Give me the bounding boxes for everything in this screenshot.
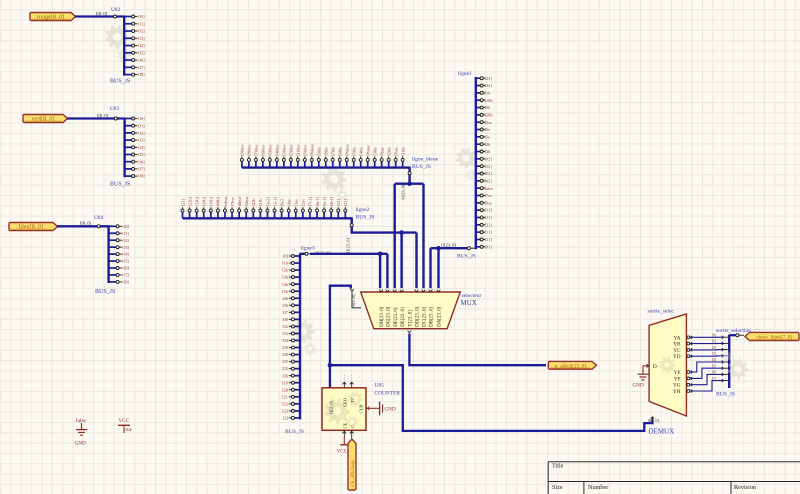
wire split to MUX DF and DD <box>395 182 424 184</box>
pin I42b <box>252 212 254 218</box>
pin O6] <box>125 161 132 163</box>
svg-text:I11]: I11] <box>485 208 493 213</box>
wire vert bus <box>67 117 124 119</box>
pin I4e1] <box>330 212 332 218</box>
svg-text:Pbue: Pbue <box>380 147 385 156</box>
svg-text:Pbnue: Pbnue <box>366 145 371 156</box>
svg-text:I02]: I02] <box>485 156 493 161</box>
svg-text:I11]: I11] <box>485 230 493 235</box>
svg-text:BUS_JS: BUS_JS <box>110 182 130 188</box>
svg-text:DG[23..0]: DG[23..0] <box>387 306 392 326</box>
pin I01] <box>476 246 480 248</box>
svg-text:I5]: I5] <box>712 363 717 368</box>
svg-text:3I3: 3I3 <box>282 331 289 336</box>
svg-text:I42b: I42b <box>251 198 256 207</box>
bus joiner ligne_bleue <box>242 166 410 168</box>
svg-text:Title: Title <box>552 463 564 470</box>
wire to MUX pin DG <box>386 254 388 288</box>
svg-text:Pbue: Pbue <box>393 147 398 156</box>
svg-text:sortie_selec: sortie_selec <box>648 309 675 315</box>
svg-text:CE: CE <box>343 422 348 428</box>
wire ligne_bleue O[23..0] output <box>408 167 410 172</box>
svg-text:I02]: I02] <box>485 171 493 176</box>
svg-text:I1b: I1b <box>282 261 289 266</box>
svg-text:DEMUX: DEMUX <box>649 428 675 436</box>
svg-text:Y[23..0]: Y[23..0] <box>409 310 414 327</box>
svg-text:O5]: O5] <box>122 259 129 264</box>
svg-text:VCC: VCC <box>119 418 130 424</box>
svg-text:ligne3: ligne3 <box>301 245 315 251</box>
pin O3] <box>124 37 132 39</box>
pin O8] <box>124 74 132 76</box>
pin I0] <box>294 255 300 257</box>
svg-text:DF[23..0]: DF[23..0] <box>394 307 399 327</box>
watermark gear 4 <box>291 319 315 343</box>
svg-text:2I8: 2I8 <box>282 352 289 357</box>
pin I3ble <box>374 161 376 167</box>
pin O5] <box>109 260 117 262</box>
svg-text:DH[23..0]: DH[23..0] <box>380 306 385 326</box>
pin I3b <box>294 276 300 278</box>
svg-text:ligne2: ligne2 <box>356 207 370 213</box>
pin O2] <box>109 239 117 241</box>
svg-text:O2]: O2] <box>138 131 145 136</box>
svg-text:false: false <box>485 186 493 191</box>
svg-text:I5ble: I5ble <box>352 147 357 156</box>
pin I9se <box>476 202 480 204</box>
bus joiner ligne2 <box>183 217 352 219</box>
wire to MUX pin DD <box>422 184 424 289</box>
svg-text:CLR: CLR <box>359 404 364 414</box>
pin I23 <box>294 410 300 412</box>
svg-text:I22: I22 <box>282 401 288 406</box>
svg-text:I22]: I22] <box>485 83 493 88</box>
watermark gear 1 <box>105 25 130 50</box>
pin O4] <box>125 146 132 148</box>
svg-text:O8]: O8] <box>122 280 129 285</box>
pin I1b <box>294 262 300 264</box>
svg-text:I1ble: I1ble <box>400 147 405 156</box>
pin I1ble <box>402 161 404 167</box>
wire select branch to DEMUX <box>330 365 653 431</box>
svg-text:DD[23..0]: DD[23..0] <box>416 306 421 326</box>
pin CE arrow <box>342 431 346 433</box>
pin O0] <box>109 225 117 227</box>
pin I0blue <box>304 161 306 167</box>
pin 2I2 <box>294 368 300 370</box>
svg-text:I23: I23 <box>282 408 289 413</box>
pin 3I5 <box>294 361 300 363</box>
node rouge input pin <box>114 15 117 18</box>
pin arrow <box>415 290 419 292</box>
svg-text:I5blue: I5blue <box>268 145 273 156</box>
pin arrow <box>429 290 433 292</box>
pin I4blue <box>276 161 278 167</box>
wire YF to joiner pin I5 <box>687 377 690 380</box>
svg-text:O3]: O3] <box>138 36 145 41</box>
svg-text:sortie_selection: sortie_selection <box>716 328 751 334</box>
pin O7] <box>125 168 132 170</box>
svg-text:I2ble: I2ble <box>386 147 391 156</box>
svg-text:O4]: O4] <box>138 43 145 48</box>
svg-text:I20b: I20b <box>485 112 494 117</box>
svg-text:BUS_JS: BUS_JS <box>356 214 375 220</box>
svg-text:YB: YB <box>673 342 681 348</box>
port vert[8..0] <box>23 115 68 123</box>
small gear <box>753 327 761 335</box>
svg-text:O1]: O1] <box>122 231 129 236</box>
svg-text:Revision: Revision <box>734 484 756 491</box>
pin I7ble <box>332 161 334 167</box>
svg-text:I42]: I42] <box>485 178 493 183</box>
gnd symbol at D input <box>647 364 649 367</box>
svg-text:YF: YF <box>674 376 681 382</box>
pin 2I8 <box>294 354 300 356</box>
pin I4b <box>294 283 300 285</box>
svg-text:clk_affichage: clk_affichage <box>351 459 356 487</box>
pin O7] <box>109 274 117 276</box>
svg-text:I1blue: I1blue <box>296 145 301 156</box>
pin I1e1] <box>274 212 276 218</box>
wire ligne2 O[23..0] output <box>351 217 353 223</box>
pin I11] <box>476 231 480 233</box>
svg-text:blue: blue <box>287 199 292 207</box>
junction <box>399 230 404 235</box>
node bleu input pin <box>97 225 100 228</box>
pin I20b <box>476 114 480 116</box>
pin O5] <box>124 52 132 54</box>
pin O1] <box>109 232 117 234</box>
svg-text:DC[23..0]: DC[23..0] <box>423 307 428 327</box>
svg-text:I20b]: I20b] <box>202 196 207 206</box>
svg-text:ligne_bleue: ligne_bleue <box>412 157 439 163</box>
pin I21 <box>294 396 300 398</box>
svg-text:BUS_JS: BUS_JS <box>716 392 735 398</box>
wire YA to joiner pin I0 <box>687 336 690 339</box>
svg-text:YG: YG <box>673 383 681 389</box>
svg-text:I0e2: I0e2 <box>279 199 284 207</box>
pin I3b <box>476 151 480 153</box>
svg-text:I3b: I3b <box>282 275 289 280</box>
svg-text:I6]: I6] <box>712 370 717 375</box>
svg-text:O6]: O6] <box>122 266 129 271</box>
svg-text:I6e: I6e <box>485 127 491 132</box>
pin arrow Y output <box>408 330 412 332</box>
pin I1b <box>476 92 480 94</box>
pin 2Ib <box>294 297 300 299</box>
wire rouge bus <box>75 15 123 17</box>
svg-text:U84: U84 <box>94 215 104 221</box>
svg-text:rue: rue <box>126 428 133 433</box>
svg-text:3I7: 3I7 <box>282 310 289 315</box>
svg-text:3I8: 3I8 <box>282 317 289 322</box>
svg-text:I9ble: I9ble <box>317 147 322 156</box>
pin O1] <box>124 23 132 25</box>
pin I5ble <box>353 161 355 167</box>
pin I6bue <box>238 212 240 218</box>
svg-text:O7]: O7] <box>138 65 145 70</box>
svg-text:O8]: O8] <box>138 72 145 77</box>
svg-text:DE[23..0]: DE[23..0] <box>401 307 406 327</box>
svg-text:BUS_JS: BUS_JS <box>95 289 115 295</box>
svg-text:O[23..0]: O[23..0] <box>346 238 351 253</box>
bus joiner ligne1 <box>475 77 477 249</box>
pin I10b <box>476 99 480 101</box>
svg-text:2I9: 2I9 <box>282 345 289 350</box>
svg-text:BUS_JS: BUS_JS <box>110 79 130 85</box>
pin I4b <box>476 143 480 145</box>
wire YC to joiner pin I2 <box>687 349 690 352</box>
svg-text:I32]: I32] <box>336 199 341 207</box>
wire counter Q to MUX select <box>330 286 351 388</box>
pin Pbluse <box>346 161 348 167</box>
svg-text:I6ble: I6ble <box>338 147 343 156</box>
svg-text:VCC: VCC <box>337 448 348 454</box>
svg-text:U82: U82 <box>111 7 121 13</box>
svg-text:BUS_JS: BUS_JS <box>457 254 476 260</box>
svg-text:BUS_JS: BUS_JS <box>412 164 431 170</box>
pin Pbue <box>395 161 397 167</box>
svg-text:I[8..0]: I[8..0] <box>97 113 109 118</box>
pin C arrow <box>350 431 354 433</box>
svg-text:I23]: I23] <box>485 76 493 81</box>
svg-text:I4e1]: I4e1] <box>329 197 334 207</box>
svg-text:CEO: CEO <box>343 397 348 407</box>
port rouge[8..0] <box>30 13 76 21</box>
wire to MUX pin DE <box>400 233 402 289</box>
wire YB to joiner pin I1 <box>687 342 690 345</box>
svg-text:GND: GND <box>633 383 644 389</box>
pin I20b] <box>203 212 205 218</box>
watermark gear 2 <box>321 166 347 192</box>
port st_affich[23..0] <box>548 361 596 369</box>
svg-text:I6e1]: I6e1] <box>315 197 320 207</box>
svg-text:I8blue: I8blue <box>247 145 252 156</box>
power VCC on CE <box>343 437 345 445</box>
junction <box>378 252 383 257</box>
svg-text:O5]: O5] <box>138 152 145 157</box>
pin I5b <box>294 290 300 292</box>
svg-text:YD: YD <box>673 354 681 360</box>
pin bdsue <box>224 212 226 218</box>
svg-text:O[23..0]: O[23..0] <box>441 242 456 247</box>
svg-text:I21: I21 <box>282 394 288 399</box>
pin I5bue <box>245 212 247 218</box>
pin TC arrow <box>350 382 354 384</box>
svg-text:O4]: O4] <box>122 252 129 257</box>
pin I1blue <box>297 161 299 167</box>
pin I2] <box>294 417 300 419</box>
svg-text:I6blue: I6blue <box>261 145 266 156</box>
pin I23] <box>182 212 184 218</box>
watermark gear demux right <box>728 359 749 380</box>
pin I11] <box>476 209 480 211</box>
svg-text:I7]: I7] <box>712 376 717 381</box>
pin Pbluse <box>311 161 313 167</box>
op mux selecteur (trapezoid) <box>361 292 461 329</box>
pin I5e <box>476 136 480 138</box>
svg-text:O1]: O1] <box>138 21 145 26</box>
svg-text:2Ib: 2Ib <box>282 296 289 301</box>
svg-text:I12]: I12] <box>485 164 493 169</box>
svg-text:S[2..0]: S[2..0] <box>351 294 356 306</box>
svg-text:I1]: I1] <box>712 339 717 344</box>
svg-text:I5e1]: I5e1] <box>322 197 327 207</box>
wire to MUX pin DB <box>437 248 439 288</box>
pin I23] <box>476 77 480 79</box>
wire bleu bus <box>57 225 108 227</box>
pin I5blue <box>269 161 271 167</box>
pin 3I8 <box>294 318 300 320</box>
bus joiner ligne3 <box>299 253 301 419</box>
pin I6ble <box>339 161 341 167</box>
svg-text:3I4: 3I4 <box>282 338 289 343</box>
junction <box>436 246 441 251</box>
svg-text:false: false <box>76 417 86 424</box>
pin O8] <box>125 175 132 177</box>
port clk_affichage (vertical) <box>348 439 356 490</box>
svg-text:I1e1]: I1e1] <box>272 197 277 207</box>
counter U85 body <box>322 388 366 431</box>
pin Pbnue <box>367 161 369 167</box>
port choix_ligne[7..0] <box>745 332 799 340</box>
svg-text:O[23..0]: O[23..0] <box>401 184 406 199</box>
svg-text:O4]: O4] <box>138 145 145 150</box>
pin I31b <box>259 212 261 218</box>
svg-text:MUX: MUX <box>461 299 477 307</box>
pin I7e1] <box>309 212 311 218</box>
svg-text:YC: YC <box>673 348 681 354</box>
svg-text:GND: GND <box>385 406 396 412</box>
junction select branch <box>328 363 333 368</box>
pin I11] <box>476 216 480 218</box>
wire YD to joiner pin I3 <box>687 355 690 358</box>
svg-text:I7e1]: I7e1] <box>308 197 313 207</box>
svg-text:I11]: I11] <box>485 237 493 242</box>
svg-text:O5]: O5] <box>138 50 145 55</box>
svg-text:rouge[8..0]: rouge[8..0] <box>37 14 65 21</box>
pin O8] <box>109 281 117 283</box>
watermark gear 3 <box>456 148 477 169</box>
svg-text:O1]: O1] <box>138 123 145 128</box>
mux select pin S[2..0] <box>352 292 361 308</box>
pin I02] <box>476 172 480 174</box>
pin I8blue <box>248 161 250 167</box>
svg-text:Pbluse: Pbluse <box>345 144 350 156</box>
svg-text:S[2..0]: S[2..0] <box>648 418 660 423</box>
svg-text:C: C <box>350 425 355 428</box>
pin I9b <box>476 107 480 109</box>
svg-text:I19b]: I19b] <box>209 196 214 206</box>
svg-text:I6bue: I6bue <box>237 196 242 206</box>
svg-text:I31]: I31] <box>485 222 493 227</box>
svg-text:I01]: I01] <box>485 244 493 249</box>
svg-text:3I2: 3I2 <box>282 324 288 329</box>
pin I0e2 <box>281 212 283 218</box>
pin O4] <box>109 253 117 255</box>
pin I6blue <box>262 161 264 167</box>
pin I2ue <box>302 212 304 218</box>
svg-text:I3b: I3b <box>485 149 492 154</box>
pin O1] <box>125 125 132 127</box>
svg-text:choix_ligne[7..0]: choix_ligne[7..0] <box>756 335 792 341</box>
svg-text:I2blue: I2blue <box>289 145 294 156</box>
svg-text:O0]: O0] <box>138 14 145 19</box>
pin I02] <box>476 158 480 160</box>
pin I6e <box>476 129 480 131</box>
svg-text:O0]: O0] <box>138 116 145 121</box>
pin blue <box>288 212 290 218</box>
svg-text:I4]: I4] <box>712 357 717 362</box>
pin arrow <box>379 290 383 292</box>
svg-text:3I6: 3I6 <box>282 373 289 378</box>
pin arrow <box>386 290 390 292</box>
svg-text:I4b: I4b <box>485 142 492 147</box>
svg-text:I1b: I1b <box>485 90 492 95</box>
svg-text:I2]: I2] <box>283 416 289 421</box>
junction <box>407 181 412 186</box>
svg-text:I8ble: I8ble <box>324 147 329 156</box>
svg-text:Number: Number <box>588 484 608 491</box>
wire to MUX pin DH <box>379 254 381 288</box>
pin I1ue <box>295 212 297 218</box>
svg-text:I9b: I9b <box>485 105 492 110</box>
wire ligne3 O[23..0] output <box>300 253 305 255</box>
svg-text:I23]: I23] <box>180 199 185 207</box>
pin O3] <box>125 139 132 141</box>
pin O6] <box>109 267 117 269</box>
svg-text:I21]: I21] <box>343 199 348 207</box>
svg-text:2I2: 2I2 <box>282 366 288 371</box>
pin O3] <box>109 246 117 248</box>
demux gear watermark <box>659 357 676 374</box>
pin I42] <box>476 180 480 182</box>
pin I20 <box>294 389 300 391</box>
pin I08b] <box>217 212 219 218</box>
svg-text:3I5: 3I5 <box>282 359 289 364</box>
op demux sortie_selec <box>649 314 686 416</box>
pin arrow <box>437 290 441 292</box>
svg-text:Size: Size <box>552 484 563 491</box>
svg-text:YH: YH <box>673 389 681 395</box>
pin I2e2] <box>266 212 268 218</box>
pin O0] <box>124 16 132 18</box>
svg-text:I9blue: I9blue <box>240 145 245 156</box>
pin CLR arrow + GND power <box>367 407 369 410</box>
demux S pin entry <box>651 417 653 419</box>
pin 3I4 <box>294 339 300 341</box>
svg-text:bleu[8..0]: bleu[8..0] <box>19 224 43 231</box>
svg-text:I19: I19 <box>282 380 289 385</box>
pin 3I6 <box>294 375 300 377</box>
pin I11] <box>476 238 480 240</box>
pin I2b <box>294 269 300 271</box>
svg-text:I5b: I5b <box>282 289 289 294</box>
pin I4ble <box>360 161 362 167</box>
svg-text:TC: TC <box>350 397 355 403</box>
svg-text:bdsue: bdsue <box>223 196 228 206</box>
svg-text:I7se: I7se <box>485 193 492 198</box>
pin I19b] <box>210 212 212 218</box>
pin I31] <box>476 224 480 226</box>
svg-text:I4blue: I4blue <box>275 145 280 156</box>
svg-text:I4b: I4b <box>282 282 289 287</box>
svg-text:I2ue: I2ue <box>301 199 306 207</box>
pin I7bse <box>231 212 233 218</box>
svg-text:I31b: I31b <box>258 198 263 207</box>
wire YG to joiner pin I6 <box>687 383 690 386</box>
svg-text:Pbluse: Pbluse <box>310 144 315 156</box>
